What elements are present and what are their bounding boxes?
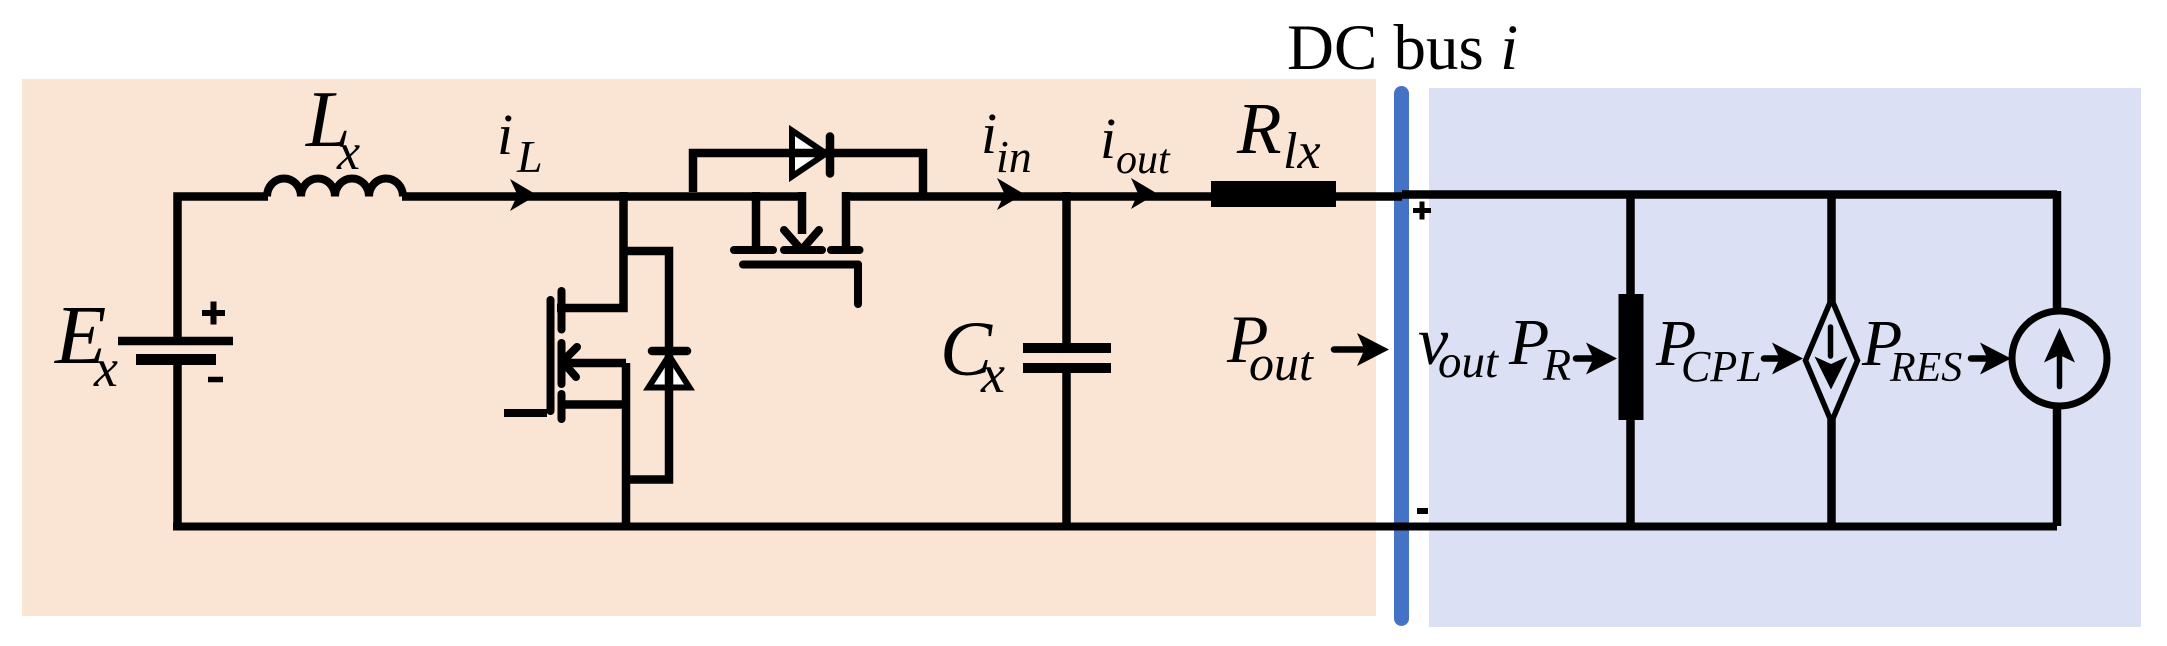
svg-text:RES: RES (1889, 345, 1962, 391)
svg-text:R: R (1236, 88, 1282, 169)
svg-text:out: out (1116, 137, 1171, 183)
svg-text:L: L (516, 131, 543, 182)
svg-text:DC bus i: DC bus i (1287, 12, 1518, 84)
svg-text:i: i (497, 102, 513, 167)
svg-text:out: out (1438, 336, 1499, 388)
svg-text:i: i (1100, 106, 1116, 171)
svg-text:out: out (1249, 335, 1314, 391)
svg-text:R: R (1542, 339, 1571, 390)
svg-text:i: i (981, 101, 997, 166)
svg-text:x: x (93, 338, 118, 398)
svg-text:in: in (996, 131, 1032, 182)
svg-text:x: x (980, 344, 1005, 404)
svg-text:CPL: CPL (1681, 342, 1762, 391)
svg-text:lx: lx (1283, 123, 1321, 180)
svg-text:x: x (336, 124, 360, 181)
